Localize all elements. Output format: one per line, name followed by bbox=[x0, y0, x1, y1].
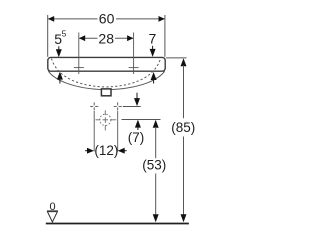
svg-text:(7): (7) bbox=[128, 130, 145, 145]
svg-text:60: 60 bbox=[99, 11, 115, 27]
svg-text:7: 7 bbox=[149, 31, 157, 47]
svg-text:(53): (53) bbox=[142, 158, 166, 173]
svg-text:28: 28 bbox=[98, 30, 114, 46]
svg-text:(85): (85) bbox=[171, 120, 195, 135]
svg-text:(12): (12) bbox=[94, 143, 118, 158]
svg-text:5: 5 bbox=[62, 29, 67, 39]
